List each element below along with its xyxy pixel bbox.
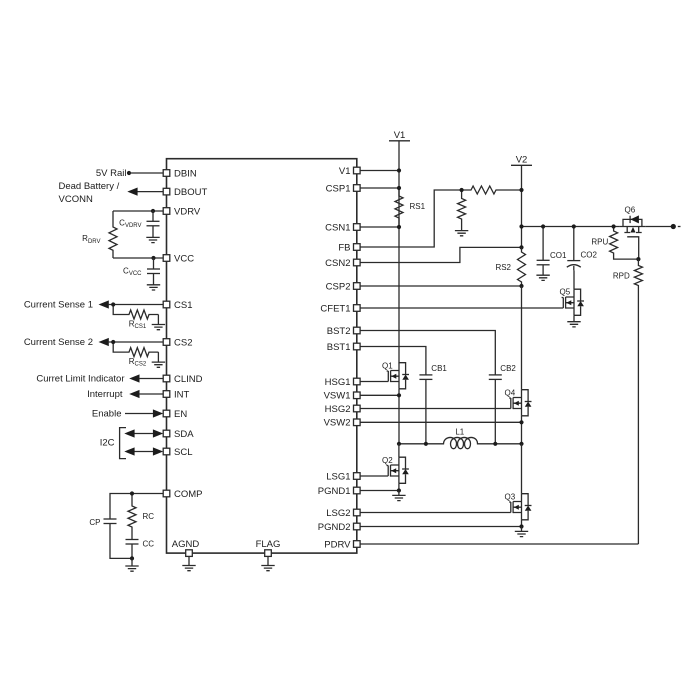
junction dot CSN2-V2 (519, 245, 523, 249)
svg-text:LSG2: LSG2 (326, 508, 350, 519)
svg-text:Q2: Q2 (382, 456, 393, 465)
wire SDA (133, 433, 154, 435)
junction dot PGND1 (397, 488, 401, 492)
pin INT (163, 391, 170, 398)
junction dot CB2 bottom (493, 442, 497, 446)
pin HSG2 (354, 405, 361, 412)
wire CS1 (108, 304, 163, 306)
svg-text:Enable: Enable (92, 409, 122, 420)
resistor FB lower (458, 190, 466, 231)
svg-text:Dead Battery /: Dead Battery / (59, 181, 120, 192)
svg-text:I2C: I2C (100, 437, 115, 448)
resistor RS2 (518, 247, 526, 286)
svg-text:SDA: SDA (174, 429, 194, 440)
svg-text:RPU: RPU (591, 238, 608, 247)
wire VCC node (113, 257, 163, 259)
ground RCS1 (157, 315, 159, 325)
junction dot VDRV (151, 209, 155, 213)
svg-text:CS2: CS2 (174, 337, 192, 348)
svg-text:V1: V1 (394, 130, 406, 141)
ground FLAG (267, 556, 269, 566)
wire Q1 source to L1 node (398, 389, 400, 444)
ground PGND2 (521, 527, 523, 532)
junction dot CO1 (541, 224, 545, 228)
svg-text:AGND: AGND (172, 539, 200, 550)
svg-text:Q6: Q6 (625, 205, 636, 214)
wire EN (125, 413, 154, 415)
pin BST1 (354, 343, 361, 350)
resistor RPD (634, 259, 642, 544)
junction dot FB divider (460, 188, 464, 192)
junction dot CO2 (572, 224, 576, 228)
junction dot VSW1 (397, 393, 401, 397)
wire VSW1 pin (360, 394, 399, 396)
svg-text:CFET1: CFET1 (320, 303, 350, 314)
capacitor CO2 (573, 227, 575, 261)
svg-text:FB: FB (338, 242, 350, 253)
svg-text:VSW2: VSW2 (324, 418, 351, 429)
svg-text:COMP: COMP (174, 489, 203, 500)
pin CSP1 (354, 185, 361, 192)
svg-text:RPD: RPD (613, 271, 630, 280)
wire INT (139, 393, 163, 395)
svg-text:Interrupt: Interrupt (87, 389, 123, 400)
svg-text:BST2: BST2 (327, 326, 351, 337)
svg-text:CC: CC (143, 539, 155, 548)
ground RCS2 (157, 352, 159, 362)
junction dot PGND2 (519, 524, 523, 528)
ground Q5 source (573, 315, 575, 321)
svg-text:Current Sense 1: Current Sense 1 (24, 300, 93, 311)
inductor L1 (399, 437, 522, 448)
junction dot CS2 (111, 340, 115, 344)
wire COMP node (110, 494, 163, 520)
transistor Q4 (509, 390, 531, 416)
pin PGND1 (354, 487, 361, 494)
pin CFET1 (354, 305, 361, 312)
wire BST1 pin to CB1 (360, 347, 426, 375)
svg-text:VSW1: VSW1 (324, 391, 351, 402)
wire Q3 source to PGND2 (521, 520, 523, 527)
pin PGND2 (354, 523, 361, 530)
junction dot CSN1 (397, 225, 401, 229)
ground AGND (188, 556, 190, 566)
junction dot CB1 bottom (424, 442, 428, 446)
wire V2 rail upper (521, 165, 523, 247)
junction dot L1 left (397, 442, 401, 446)
svg-text:V2: V2 (516, 154, 528, 165)
wire HSG1 pin to Q1 gate (360, 381, 388, 383)
wire PGND1 pin (360, 490, 399, 492)
svg-text:VCONN: VCONN (59, 194, 93, 205)
svg-text:RS2: RS2 (495, 263, 511, 272)
svg-text:CS1: CS1 (174, 300, 192, 311)
wire CLIND (139, 378, 163, 380)
ground FB divider (455, 231, 468, 236)
svg-text:PGND2: PGND2 (318, 522, 351, 533)
wire SCL (133, 451, 154, 453)
junction dot VCC (151, 256, 155, 260)
pin SCL (163, 448, 170, 455)
resistor RCS1 (113, 305, 158, 320)
junction dot comp bottom (130, 556, 134, 560)
pin VCC (163, 255, 170, 262)
ground PGND1 (398, 491, 400, 496)
svg-text:CSN1: CSN1 (325, 222, 350, 233)
svg-text:CP: CP (89, 518, 100, 527)
pin CSN2 (354, 259, 361, 266)
wire CS2 (108, 341, 163, 343)
junction dot CS1 (111, 302, 115, 306)
svg-text:BST1: BST1 (327, 342, 351, 353)
capacitor CO1 (542, 227, 544, 261)
svg-text:Q3: Q3 (505, 492, 516, 501)
pin HSG1 (354, 378, 361, 385)
pin BST2 (354, 327, 361, 334)
resistor RC (128, 494, 136, 540)
wire output rail (522, 226, 674, 228)
wire BST2 pin to CB2 (360, 331, 495, 375)
pin CSP2 (354, 283, 361, 290)
pin CS1 (163, 301, 170, 308)
transistor Q2 (398, 444, 400, 457)
pin LSG2 (354, 509, 361, 516)
pin VSW2 (354, 419, 361, 426)
bracket I2C (120, 428, 126, 459)
wire 5V Rail to DBIN (129, 172, 163, 174)
junction dot gate RPU RPD (636, 257, 640, 261)
svg-text:INT: INT (174, 389, 190, 400)
wire Q2 source to PGND1 (398, 483, 400, 490)
junction dot V1 pin (397, 168, 401, 172)
junction dot L1 right (519, 442, 523, 446)
transistor Q3 (521, 444, 523, 494)
svg-text:VCC: VCC (174, 253, 194, 264)
pin PDRV (354, 541, 361, 548)
pin LSG1 (354, 473, 361, 480)
svg-text:DBIN: DBIN (174, 168, 197, 179)
node output terminal (671, 224, 676, 229)
svg-text:CB1: CB1 (431, 364, 447, 373)
svg-text:Q4: Q4 (505, 388, 516, 397)
svg-text:HSG1: HSG1 (325, 377, 351, 388)
svg-text:Curret Limit Indicator: Curret Limit Indicator (36, 374, 124, 385)
wire V1 pin (360, 170, 399, 172)
svg-text:FLAG: FLAG (256, 539, 281, 550)
pin AGND (186, 550, 193, 557)
pin VSW1 (354, 392, 361, 399)
junction dot V2-FB (519, 188, 523, 192)
pin DBIN (163, 170, 170, 177)
svg-text:CSP1: CSP1 (326, 183, 351, 194)
svg-text:DBOUT: DBOUT (174, 187, 207, 198)
ground CO1 (536, 275, 549, 280)
wire Q4 source down (521, 416, 523, 444)
svg-text:CO2: CO2 (581, 251, 598, 260)
pin SDA (163, 430, 170, 437)
wire LSG2 pin to Q3 gate (360, 512, 511, 514)
resistor RPU (610, 227, 639, 260)
wire PGND2 pin (360, 526, 521, 528)
pin COMP (163, 490, 170, 497)
svg-text:SCL: SCL (174, 447, 192, 458)
capacitor CC (126, 540, 139, 545)
svg-text:PGND1: PGND1 (318, 486, 351, 497)
capacitor CVCC (153, 258, 155, 269)
svg-text:Q5: Q5 (560, 288, 571, 297)
ground COMP (131, 558, 133, 566)
svg-text:LSG1: LSG1 (326, 471, 350, 482)
pin CLIND (163, 375, 170, 382)
capacitor CP (104, 519, 117, 524)
wire V2 rail to Q4 (521, 286, 523, 390)
resistor RDRV (109, 211, 117, 258)
pin FB (354, 244, 361, 251)
capacitor CB1 (419, 375, 432, 380)
junction dot V2-rail (519, 224, 523, 228)
wire CFET1 pin to Q5 gate (360, 307, 563, 309)
resistor RCS2 (113, 342, 158, 357)
wire VSW2 pin (360, 421, 521, 423)
svg-text:VDRV: VDRV (174, 206, 201, 217)
pin VDRV (163, 208, 170, 215)
capacitor CVDRV (152, 211, 154, 221)
wire V1 rail (398, 141, 400, 363)
svg-text:CSN2: CSN2 (325, 258, 350, 269)
wire LSG1 pin to Q2 gate (360, 475, 388, 477)
wire CSN2 pin (360, 247, 521, 262)
resistor RS1 (395, 188, 403, 227)
wire HSG2 pin to Q4 gate (360, 408, 511, 410)
IC body U1 (167, 159, 357, 553)
pin CS2 (163, 339, 170, 346)
junction dot COMP (130, 491, 134, 495)
transistor Q5 (573, 270, 575, 289)
svg-text:PDRV: PDRV (324, 539, 351, 550)
junction dot CSP2-V2 (519, 284, 523, 288)
wire CSN1 pin (360, 226, 399, 228)
svg-text:CLIND: CLIND (174, 374, 203, 385)
pin EN (163, 410, 170, 417)
pin CSN1 (354, 224, 361, 231)
wire FB pin (360, 190, 462, 247)
svg-text:RS1: RS1 (410, 202, 426, 211)
svg-text:CB2: CB2 (500, 364, 516, 373)
resistor FB upper (462, 186, 522, 194)
svg-text:RC: RC (143, 512, 155, 521)
junction dot VSW2 (519, 420, 523, 424)
pin FLAG (265, 550, 272, 557)
capacitor CB2 (489, 375, 502, 380)
svg-text:HSG2: HSG2 (325, 404, 351, 415)
svg-text:5V Rail: 5V Rail (96, 168, 127, 179)
wire CSP1 pin (360, 187, 399, 189)
pin V1 (354, 167, 361, 174)
svg-text:L1: L1 (455, 428, 464, 437)
junction dot RPU top (612, 224, 616, 228)
svg-text:EN: EN (174, 409, 187, 420)
junction dot CSP1 (397, 186, 401, 190)
wire PDRV pin (360, 543, 638, 545)
svg-text:V1: V1 (339, 166, 351, 177)
ground CVCC (147, 285, 160, 290)
wire VDRV node (113, 210, 163, 212)
svg-text:Q1: Q1 (382, 361, 393, 370)
ground CVDRV (146, 237, 159, 242)
pin DBOUT (163, 188, 170, 195)
svg-text:CO1: CO1 (550, 251, 567, 260)
wire DBOUT out (137, 191, 163, 193)
svg-text:Current Sense 2: Current Sense 2 (24, 337, 93, 348)
transistor Q1 (387, 363, 409, 389)
svg-text:CSP2: CSP2 (326, 281, 351, 292)
transistor Q6 (620, 215, 646, 259)
wire CSP2 pin (360, 285, 521, 287)
